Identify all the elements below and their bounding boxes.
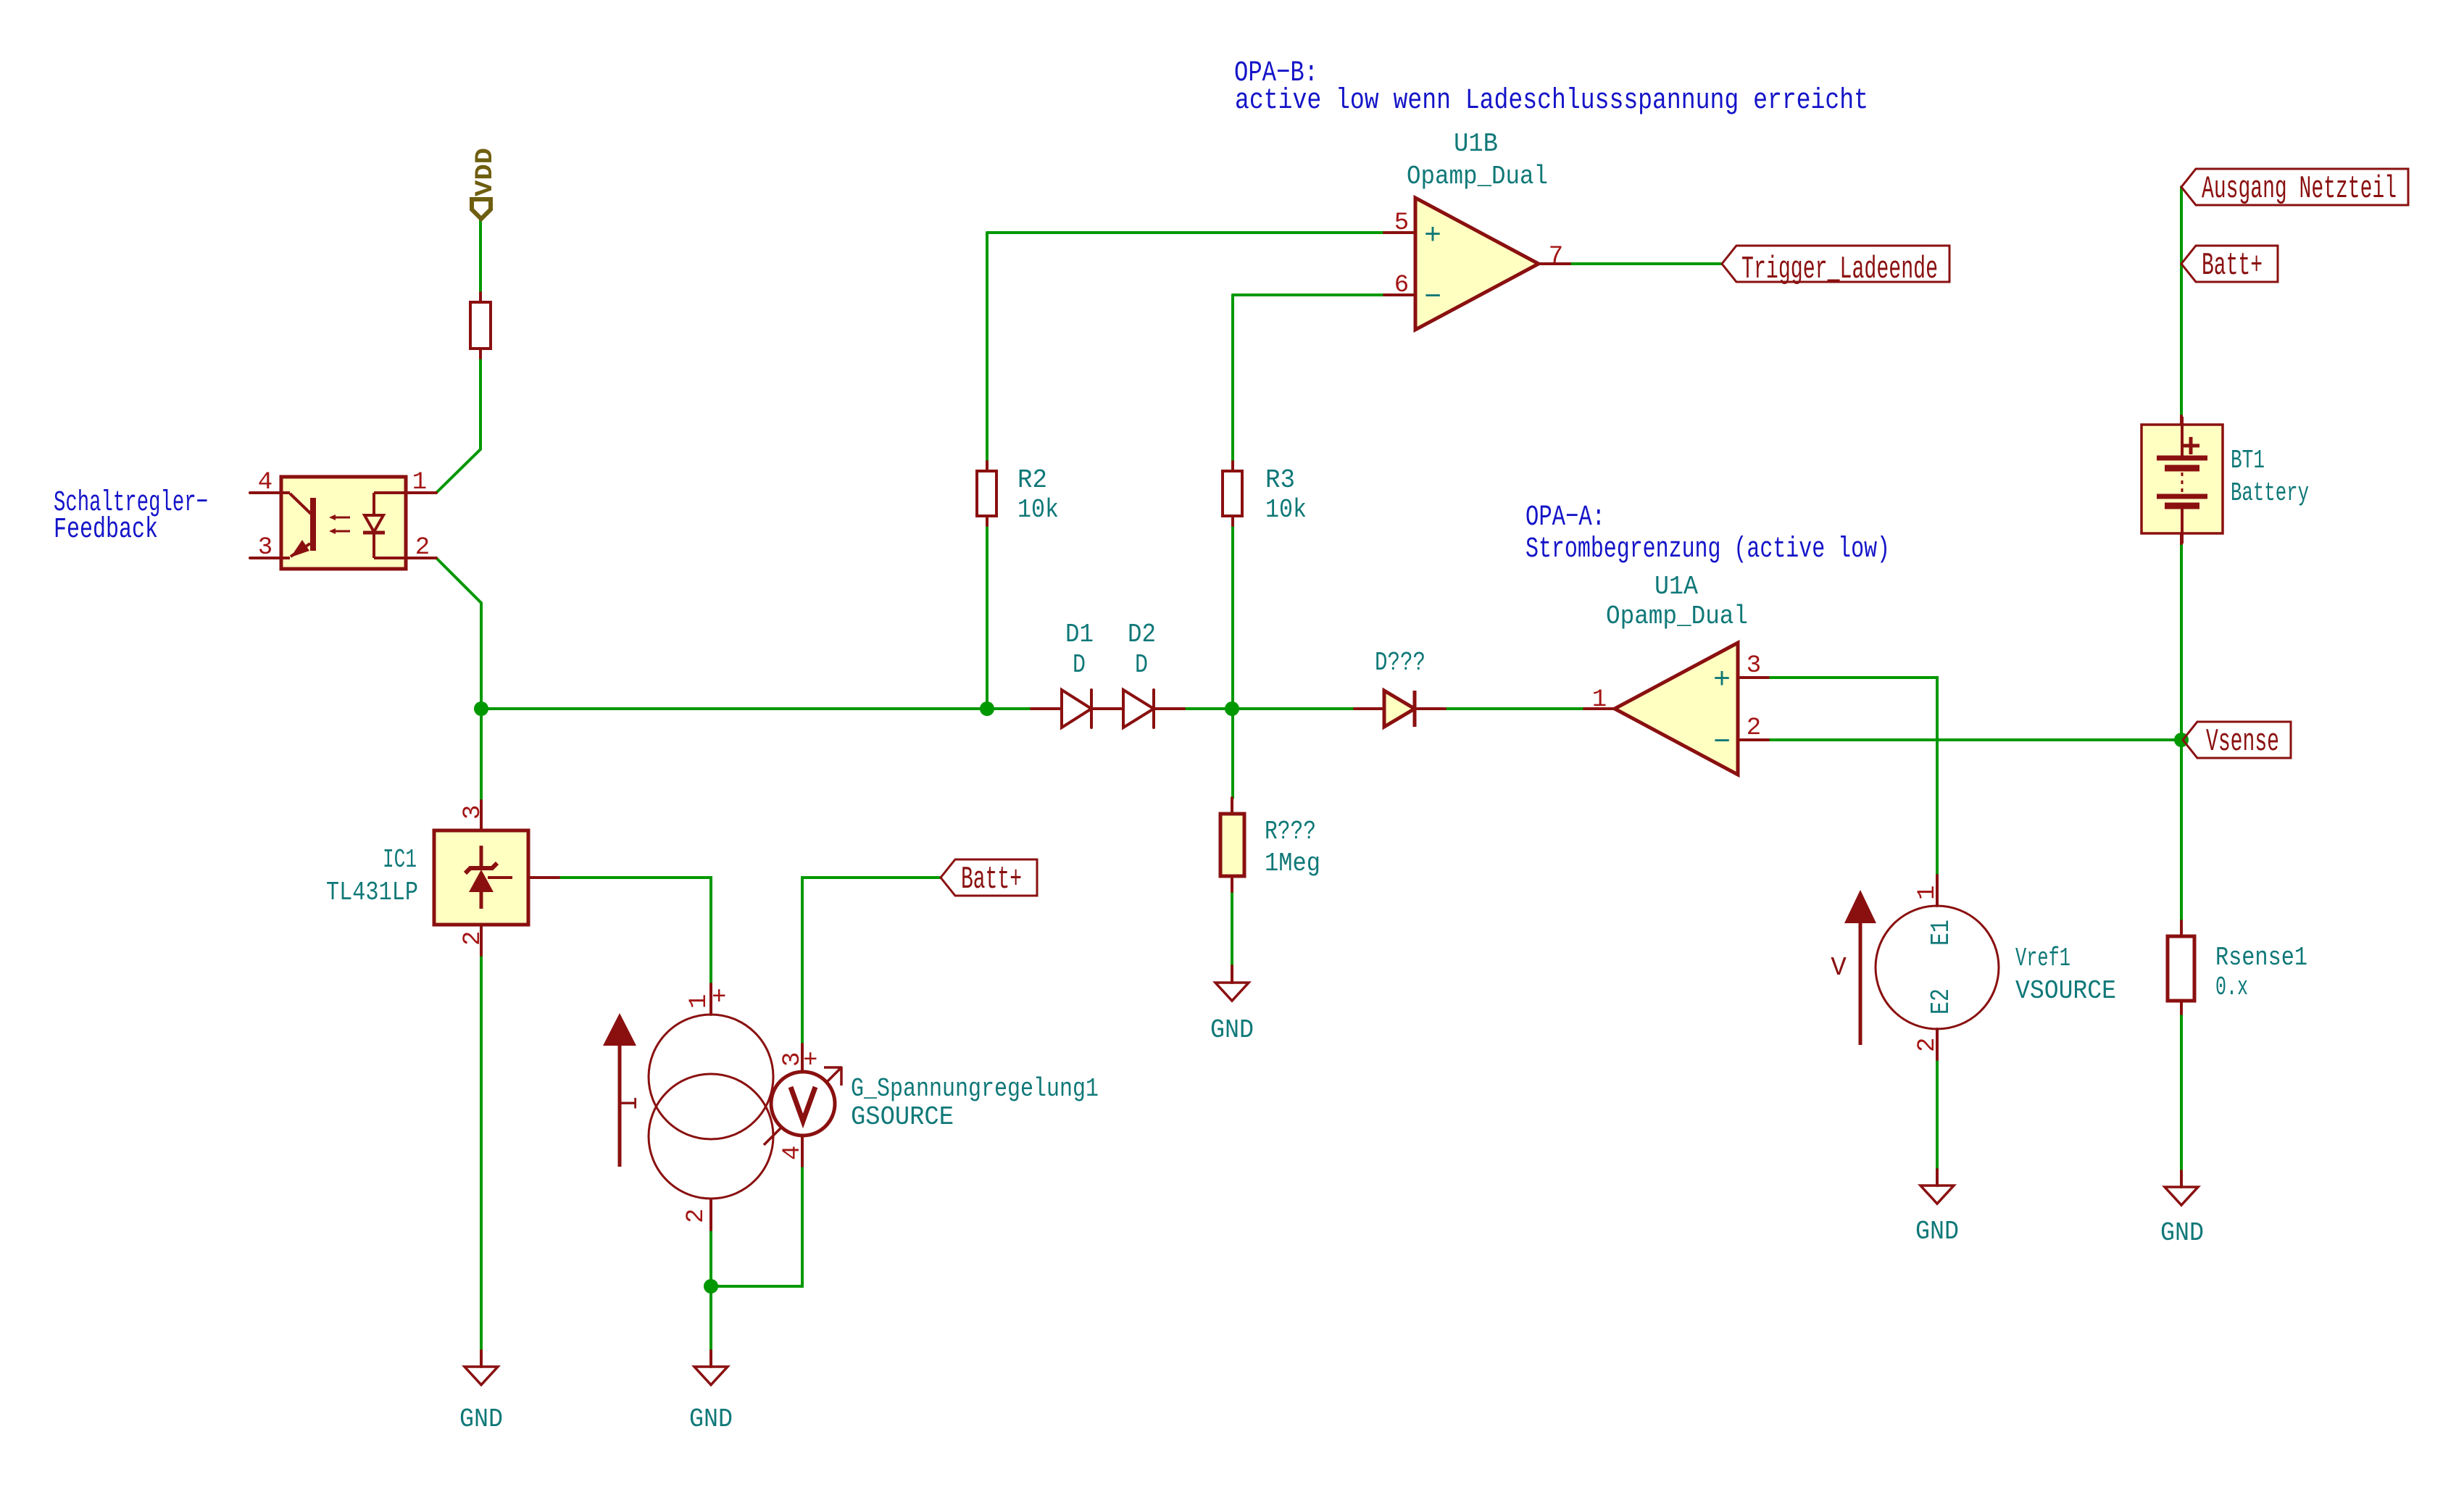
svg-text:R2: R2	[1017, 465, 1047, 495]
svg-text:D1: D1	[1065, 620, 1094, 649]
svg-text:2: 2	[683, 1209, 710, 1223]
svg-text:1Meg: 1Meg	[1265, 849, 1320, 878]
svg-text:+: +	[1424, 220, 1441, 253]
svg-text:G_Spannungregelung1: G_Spannungregelung1	[851, 1074, 1099, 1104]
svg-text:4: 4	[258, 469, 272, 496]
svg-text:GND: GND	[1210, 1015, 1254, 1045]
svg-text:1: 1	[412, 469, 427, 496]
svg-text:Vref1: Vref1	[2015, 944, 2070, 973]
svg-text:−: −	[1424, 282, 1441, 315]
svg-text:U1B: U1B	[1454, 129, 1498, 159]
svg-text:3: 3	[1747, 652, 1761, 680]
svg-text:GND: GND	[2160, 1218, 2204, 1248]
svg-text:Vsense: Vsense	[2206, 724, 2279, 760]
svg-text:VDD: VDD	[472, 148, 499, 196]
svg-text:+: +	[803, 1047, 817, 1075]
svg-text:GND: GND	[1915, 1217, 1959, 1246]
svg-text:Feedback: Feedback	[54, 514, 158, 546]
svg-text:2: 2	[1747, 715, 1761, 742]
svg-text:R3: R3	[1265, 465, 1295, 495]
svg-text:I: I	[615, 1095, 644, 1111]
svg-text:3: 3	[258, 534, 272, 562]
svg-text:10k: 10k	[1265, 495, 1307, 525]
svg-text:6: 6	[1394, 272, 1409, 299]
svg-text:Rsense1: Rsense1	[2215, 943, 2307, 972]
svg-text:BT1: BT1	[2231, 446, 2265, 475]
svg-text:2: 2	[459, 931, 487, 946]
svg-text:Opamp_Dual: Opamp_Dual	[1407, 162, 1548, 191]
svg-text:D???: D???	[1375, 648, 1425, 678]
svg-text:1: 1	[686, 994, 713, 1009]
svg-text:5: 5	[1394, 209, 1409, 237]
svg-text:Trigger_Ladeende: Trigger_Ladeende	[1741, 251, 1938, 288]
svg-text:V: V	[1831, 953, 1847, 983]
svg-text:E1: E1	[1926, 920, 1956, 946]
svg-text:3: 3	[459, 805, 487, 820]
svg-text:0.x: 0.x	[2215, 972, 2248, 1002]
svg-text:D2: D2	[1128, 620, 1156, 649]
svg-text:D: D	[1073, 650, 1086, 680]
svg-text:10k: 10k	[1017, 495, 1059, 525]
svg-text:7: 7	[1549, 243, 1563, 270]
svg-text:1: 1	[1592, 686, 1607, 714]
svg-text:2: 2	[415, 534, 430, 562]
svg-text:GSOURCE: GSOURCE	[851, 1102, 954, 1132]
svg-text:active low wenn Ladeschlussspa: active low wenn Ladeschlussspannung erre…	[1235, 85, 1868, 117]
svg-text:TL431LP: TL431LP	[326, 878, 418, 907]
svg-text:Strombegrenzung (active low): Strombegrenzung (active low)	[1526, 533, 1890, 566]
svg-text:+: +	[712, 984, 726, 1012]
svg-text:2: 2	[1914, 1038, 1941, 1052]
svg-text:Batt+: Batt+	[2202, 248, 2263, 284]
svg-text:IC1: IC1	[383, 845, 417, 875]
svg-text:OPA−A:: OPA−A:	[1526, 501, 1605, 534]
svg-text:4: 4	[779, 1146, 807, 1160]
svg-text:Opamp_Dual: Opamp_Dual	[1606, 601, 1748, 631]
svg-text:U1A: U1A	[1655, 572, 1698, 601]
svg-text:E2: E2	[1926, 988, 1956, 1015]
svg-text:Batt+: Batt+	[961, 862, 1022, 898]
svg-text:D: D	[1135, 650, 1148, 680]
svg-text:R???: R???	[1265, 817, 1316, 846]
svg-text:Ausgang Netzteil: Ausgang Netzteil	[2202, 171, 2397, 207]
svg-text:GND: GND	[459, 1404, 503, 1434]
svg-text:Battery: Battery	[2231, 478, 2309, 508]
svg-text:1: 1	[1914, 886, 1941, 900]
svg-text:VSOURCE: VSOURCE	[2015, 976, 2116, 1006]
svg-text:GND: GND	[689, 1404, 733, 1434]
svg-text:+: +	[1713, 665, 1731, 697]
svg-text:−: −	[1713, 727, 1731, 759]
